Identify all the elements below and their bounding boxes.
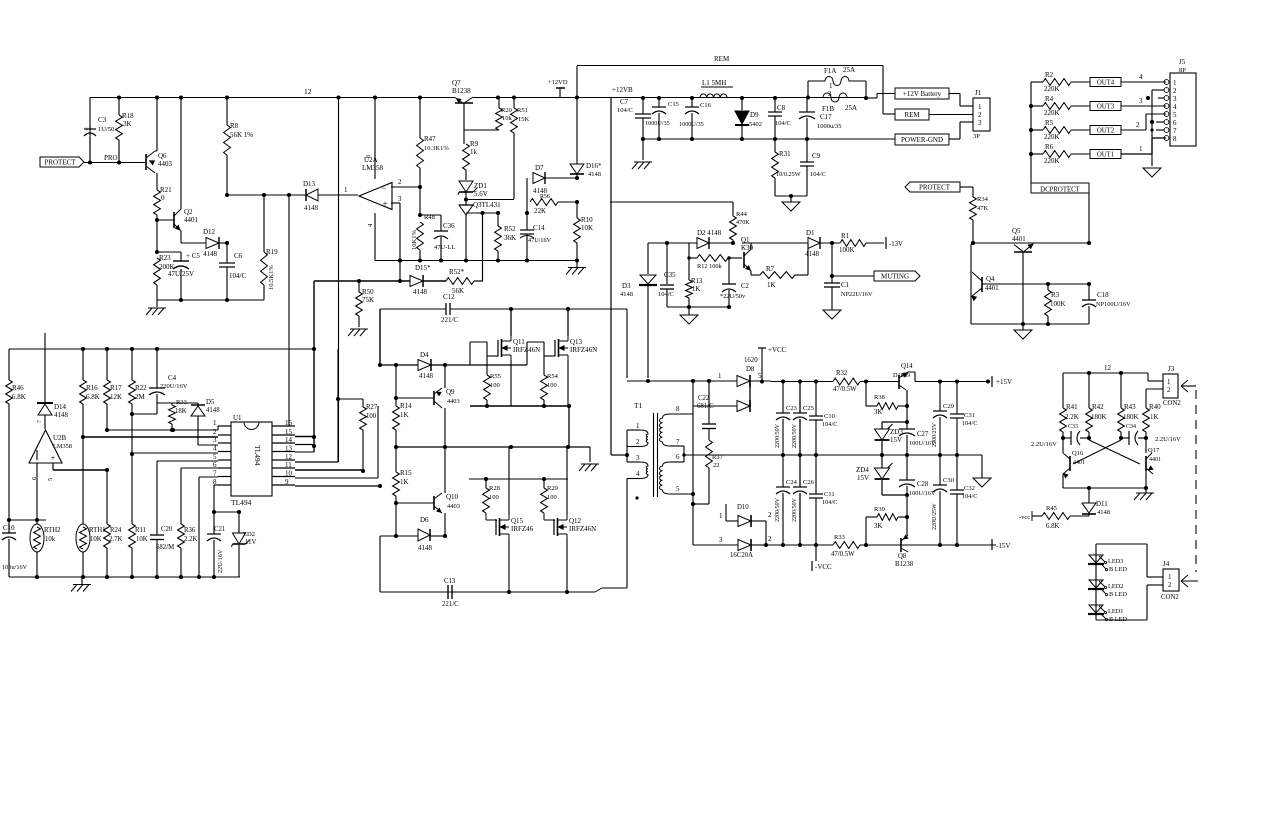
svg-text:R14: R14 bbox=[400, 402, 412, 410]
wire bbox=[1145, 389, 1147, 408]
svg-text:+12VB: +12VB bbox=[612, 86, 633, 94]
svg-text:221/C: 221/C bbox=[442, 601, 459, 608]
wire bbox=[750, 243, 752, 249]
wire bbox=[118, 140, 120, 162]
wire bbox=[1158, 97, 1164, 99]
svg-text:R19: R19 bbox=[266, 248, 278, 256]
junction bbox=[394, 445, 398, 449]
svg-text:104/C: 104/C bbox=[775, 120, 791, 127]
wire bbox=[214, 484, 218, 486]
svg-text:3K: 3K bbox=[874, 409, 882, 416]
svg-text:1000U/35: 1000U/35 bbox=[679, 121, 704, 128]
wire bbox=[815, 545, 817, 561]
wire bbox=[53, 469, 107, 471]
junction bbox=[575, 200, 579, 204]
svg-text:R8: R8 bbox=[230, 122, 239, 130]
wire bbox=[131, 414, 133, 454]
wire bbox=[882, 66, 884, 115]
svg-text:100: 100 bbox=[366, 413, 377, 420]
junction bbox=[155, 250, 159, 254]
svg-text:LM358: LM358 bbox=[362, 164, 384, 172]
svg-text:2.2U/16V: 2.2U/16V bbox=[1155, 436, 1181, 443]
svg-text:5.6V: 5.6V bbox=[474, 190, 488, 198]
svg-text:3: 3 bbox=[636, 454, 640, 462]
wire bbox=[295, 469, 363, 471]
wire bbox=[1145, 488, 1147, 493]
svg-text:104/C: 104/C bbox=[810, 171, 826, 178]
svg-text:4148: 4148 bbox=[620, 291, 633, 298]
wire bbox=[774, 98, 776, 112]
wire bbox=[626, 309, 628, 378]
dashed line bbox=[1195, 390, 1197, 572]
wire bbox=[156, 215, 158, 220]
diode D15 bbox=[410, 276, 423, 287]
wire bbox=[881, 422, 883, 429]
wire bbox=[799, 455, 801, 487]
wire bbox=[157, 460, 218, 462]
wire bbox=[906, 517, 908, 535]
wire bbox=[156, 285, 158, 300]
svg-text:NP100U/16V: NP100U/16V bbox=[1096, 301, 1131, 308]
svg-text:22U/16V: 22U/16V bbox=[217, 549, 224, 573]
svg-text:104/C: 104/C bbox=[822, 421, 837, 428]
wire bbox=[543, 400, 545, 406]
junction bbox=[781, 453, 785, 457]
wire bbox=[589, 447, 591, 462]
svg-text:2: 2 bbox=[768, 511, 772, 519]
svg-text:22K: 22K bbox=[534, 207, 546, 215]
wire bbox=[395, 503, 397, 536]
transistor Q1 bbox=[743, 252, 745, 268]
wire bbox=[1145, 432, 1147, 438]
svg-text:+VCC: +VCC bbox=[768, 346, 787, 354]
junction bbox=[225, 241, 229, 245]
svg-text:Q14: Q14 bbox=[901, 363, 913, 370]
svg-text:1: 1 bbox=[1173, 79, 1177, 87]
wire bbox=[391, 202, 400, 204]
wire bbox=[815, 455, 817, 494]
wire bbox=[132, 413, 157, 415]
svg-text:R17: R17 bbox=[110, 384, 122, 392]
wire bbox=[106, 349, 108, 380]
wire bbox=[898, 516, 907, 518]
junction bbox=[955, 379, 959, 383]
wire bbox=[272, 459, 295, 461]
svg-text:4403: 4403 bbox=[447, 503, 460, 510]
wire bbox=[626, 479, 628, 589]
wire bbox=[156, 173, 158, 190]
wire bbox=[238, 545, 240, 577]
wire bbox=[82, 437, 84, 524]
svg-text:C22: C22 bbox=[698, 395, 710, 402]
wire bbox=[8, 539, 10, 577]
svg-text:8P: 8P bbox=[1179, 67, 1186, 74]
svg-text:5: 5 bbox=[758, 372, 762, 380]
svg-text:220K: 220K bbox=[1044, 109, 1060, 117]
svg-text:4148: 4148 bbox=[419, 372, 434, 380]
svg-text:5402: 5402 bbox=[749, 121, 762, 128]
resistor R21 bbox=[154, 190, 161, 215]
svg-text:ZD4: ZD4 bbox=[856, 466, 869, 474]
svg-text:R36: R36 bbox=[184, 527, 196, 534]
junction bbox=[212, 510, 216, 514]
wire bbox=[445, 364, 527, 366]
svg-text:56K 1%: 56K 1% bbox=[230, 131, 253, 139]
wire bbox=[626, 447, 628, 463]
svg-text:C17: C17 bbox=[820, 113, 832, 121]
svg-text:10K: 10K bbox=[581, 224, 593, 232]
junction bbox=[105, 575, 109, 579]
junction bbox=[496, 258, 500, 262]
svg-text:8: 8 bbox=[676, 405, 680, 413]
transistor Q14 bbox=[860, 381, 899, 383]
wire bbox=[1080, 437, 1089, 439]
wire bbox=[742, 242, 808, 244]
svg-text:7: 7 bbox=[1173, 127, 1177, 135]
wire bbox=[272, 484, 295, 486]
svg-text:Q11: Q11 bbox=[513, 338, 525, 346]
junction bbox=[35, 518, 39, 522]
wire bbox=[688, 258, 690, 280]
wire bbox=[611, 454, 627, 456]
svg-text:470K: 470K bbox=[736, 219, 750, 226]
transistor Q9 bbox=[433, 391, 435, 405]
junction bbox=[740, 137, 744, 141]
svg-text:4148: 4148 bbox=[54, 411, 69, 419]
svg-text:1000u/35: 1000u/35 bbox=[817, 123, 842, 130]
wire bbox=[883, 113, 895, 115]
svg-text:D13: D13 bbox=[303, 180, 316, 188]
svg-text:R16: R16 bbox=[86, 384, 98, 392]
wire bbox=[1120, 373, 1122, 408]
junction bbox=[1144, 486, 1148, 490]
wire bbox=[379, 536, 381, 592]
wire bbox=[882, 494, 907, 496]
svg-text:C9: C9 bbox=[812, 152, 821, 160]
wire bbox=[939, 417, 941, 455]
svg-text:6.8K: 6.8K bbox=[1046, 523, 1059, 530]
svg-text:C34: C34 bbox=[1126, 424, 1136, 430]
svg-text:180K: 180K bbox=[1123, 413, 1139, 421]
wire bbox=[466, 212, 498, 214]
svg-text:6: 6 bbox=[1173, 119, 1177, 127]
wire bbox=[1156, 129, 1164, 131]
junction bbox=[1150, 128, 1153, 131]
junction bbox=[905, 515, 909, 519]
wire bbox=[288, 195, 290, 426]
junction bbox=[575, 176, 579, 180]
svg-text:D10: D10 bbox=[737, 504, 749, 511]
svg-text:4401: 4401 bbox=[1149, 457, 1161, 463]
wire bbox=[464, 129, 466, 131]
wire bbox=[272, 451, 295, 453]
wire bbox=[1030, 82, 1032, 183]
wire bbox=[9, 576, 240, 578]
wire bbox=[602, 587, 627, 589]
svg-text:220U/16V: 220U/16V bbox=[160, 383, 188, 390]
svg-text:47U-LL: 47U-LL bbox=[434, 244, 455, 251]
junction bbox=[88, 160, 92, 164]
pin circle bbox=[1164, 88, 1169, 93]
junction bbox=[394, 396, 398, 400]
svg-text:3: 3 bbox=[978, 119, 982, 127]
wire bbox=[470, 405, 569, 407]
wire bbox=[358, 316, 360, 327]
junction bbox=[880, 453, 884, 457]
svg-text:R34: R34 bbox=[977, 196, 989, 203]
junction bbox=[773, 137, 777, 141]
wire bbox=[181, 242, 206, 244]
junction bbox=[418, 185, 422, 189]
svg-text:REM: REM bbox=[714, 55, 730, 63]
junction bbox=[117, 160, 121, 164]
wire bbox=[510, 309, 512, 336]
led LED2 bbox=[1089, 580, 1103, 588]
wire bbox=[799, 493, 801, 545]
svg-text:2: 2 bbox=[1167, 386, 1171, 394]
wire bbox=[939, 455, 941, 485]
svg-text:104/C: 104/C bbox=[962, 420, 977, 427]
wire bbox=[795, 274, 808, 276]
svg-text:C16: C16 bbox=[700, 102, 712, 109]
wire bbox=[444, 447, 446, 493]
junction bbox=[509, 307, 513, 311]
mosfet Q12 bbox=[553, 519, 555, 535]
junction bbox=[1087, 241, 1091, 245]
junction bbox=[687, 305, 691, 309]
wire bbox=[526, 234, 528, 261]
wire bbox=[156, 220, 158, 252]
wire bbox=[180, 231, 182, 243]
wire bbox=[486, 400, 488, 406]
wire bbox=[626, 430, 628, 447]
svg-text:C3: C3 bbox=[98, 116, 107, 124]
svg-text:R2: R2 bbox=[1045, 71, 1054, 79]
svg-text:7: 7 bbox=[37, 420, 43, 423]
junction bbox=[938, 379, 942, 383]
IC U1 TL494 bbox=[231, 422, 272, 496]
wire bbox=[1063, 437, 1071, 439]
wire bbox=[84, 162, 146, 164]
wire bbox=[226, 98, 228, 126]
junction bbox=[805, 137, 809, 141]
wire bbox=[906, 390, 908, 406]
wire bbox=[52, 463, 54, 470]
svg-text:3: 3 bbox=[398, 195, 402, 203]
junction bbox=[830, 274, 834, 278]
wire bbox=[420, 214, 441, 216]
junction bbox=[864, 543, 868, 547]
wire bbox=[973, 242, 1089, 244]
svg-text:8: 8 bbox=[1173, 135, 1177, 143]
wire bbox=[218, 459, 231, 461]
svg-text:1: 1 bbox=[1168, 573, 1172, 581]
junction bbox=[955, 543, 959, 547]
wire bbox=[761, 348, 763, 352]
zener ZD1 bbox=[459, 181, 473, 192]
junction bbox=[691, 492, 695, 496]
wire bbox=[380, 364, 418, 366]
wire bbox=[526, 178, 528, 213]
wire bbox=[1022, 324, 1024, 330]
svg-text:*22U/50v: *22U/50v bbox=[720, 293, 746, 300]
ground bbox=[350, 328, 368, 330]
transistor Q17 bbox=[1145, 456, 1147, 471]
wire bbox=[226, 267, 228, 300]
junction bbox=[443, 363, 447, 367]
svg-text:R38: R38 bbox=[874, 394, 885, 401]
junction bbox=[657, 96, 661, 100]
junction bbox=[237, 510, 241, 514]
wire bbox=[653, 413, 655, 497]
wire bbox=[959, 94, 961, 107]
wire bbox=[380, 535, 418, 537]
wire bbox=[1147, 373, 1149, 381]
wire bbox=[728, 258, 730, 284]
wire bbox=[1071, 105, 1090, 107]
svg-text:C26: C26 bbox=[803, 479, 815, 486]
svg-text:LM358: LM358 bbox=[53, 443, 72, 450]
junction bbox=[105, 428, 109, 432]
svg-text:R41: R41 bbox=[1066, 403, 1078, 411]
junction bbox=[938, 453, 942, 457]
junction bbox=[439, 258, 443, 262]
svg-text:2.7K: 2.7K bbox=[109, 536, 122, 543]
svg-text:5: 5 bbox=[1173, 111, 1177, 119]
svg-text:1000U/35: 1000U/35 bbox=[645, 120, 670, 127]
junction bbox=[105, 347, 109, 351]
junction bbox=[986, 379, 990, 383]
junction bbox=[171, 428, 175, 432]
wire bbox=[1096, 619, 1147, 621]
svg-text:R55: R55 bbox=[490, 373, 501, 380]
wire bbox=[318, 194, 358, 196]
svg-text:4401: 4401 bbox=[1012, 236, 1026, 243]
svg-text:+: + bbox=[382, 199, 387, 209]
ground bbox=[1143, 168, 1161, 177]
wire bbox=[820, 242, 840, 244]
wire bbox=[806, 98, 808, 112]
wire bbox=[866, 405, 877, 407]
junction bbox=[312, 444, 316, 448]
wire bbox=[473, 97, 866, 99]
wire bbox=[670, 445, 684, 447]
junction bbox=[690, 137, 694, 141]
svg-text:682/M: 682/M bbox=[156, 544, 174, 551]
svg-text:4148: 4148 bbox=[805, 250, 820, 258]
junction bbox=[740, 96, 744, 100]
svg-text:Q2: Q2 bbox=[184, 208, 193, 216]
wire bbox=[295, 477, 378, 479]
wire bbox=[513, 98, 515, 109]
resistor R56 bbox=[530, 199, 558, 206]
wire bbox=[815, 420, 817, 455]
resistor R33b bbox=[833, 542, 860, 549]
svg-text:R7: R7 bbox=[766, 265, 775, 273]
junction bbox=[687, 256, 690, 259]
wire bbox=[217, 426, 219, 430]
wire bbox=[468, 479, 470, 536]
svg-text:RTH1: RTH1 bbox=[89, 527, 106, 534]
junction bbox=[1021, 322, 1025, 326]
svg-text:R54: R54 bbox=[547, 373, 559, 380]
wire bbox=[956, 455, 958, 490]
svg-text:4: 4 bbox=[636, 470, 640, 478]
wire bbox=[171, 403, 173, 405]
junction bbox=[197, 575, 201, 579]
wire bbox=[688, 307, 690, 315]
svg-text:3P: 3P bbox=[973, 133, 980, 140]
led LED1 bbox=[1089, 605, 1103, 613]
svg-text:R31: R31 bbox=[779, 150, 791, 158]
svg-text:1K: 1K bbox=[692, 286, 700, 293]
svg-text:NP22U/16V: NP22U/16V bbox=[841, 291, 873, 298]
svg-text:C33: C33 bbox=[1068, 424, 1078, 430]
junction bbox=[1061, 436, 1065, 440]
svg-text:2200/25V: 2200/25V bbox=[932, 422, 938, 447]
junction bbox=[625, 453, 629, 457]
wire bbox=[1031, 81, 1043, 83]
svg-text:C35: C35 bbox=[664, 271, 676, 279]
svg-text:1: 1 bbox=[978, 103, 982, 111]
wire bbox=[213, 540, 215, 577]
wire bbox=[558, 201, 577, 203]
wire bbox=[464, 129, 499, 131]
junction bbox=[781, 379, 785, 383]
resistor R23 bbox=[154, 258, 161, 285]
junction bbox=[905, 453, 909, 457]
junction bbox=[357, 279, 361, 283]
wire bbox=[906, 495, 908, 517]
wire bbox=[337, 349, 339, 462]
junction bbox=[394, 534, 398, 538]
svg-text:8: 8 bbox=[366, 155, 372, 158]
wire bbox=[440, 237, 442, 261]
wire bbox=[708, 381, 710, 424]
wire bbox=[692, 414, 694, 494]
svg-text:Q17: Q17 bbox=[1148, 447, 1160, 454]
wire bbox=[1152, 474, 1154, 480]
svg-text:1K: 1K bbox=[400, 411, 409, 419]
svg-text:1K: 1K bbox=[400, 478, 409, 486]
junction bbox=[814, 379, 818, 383]
wire bbox=[566, 447, 568, 515]
wire bbox=[782, 493, 784, 545]
wire bbox=[1062, 373, 1064, 408]
wire bbox=[725, 504, 727, 521]
svg-text:100K: 100K bbox=[1050, 300, 1066, 308]
junction bbox=[312, 347, 316, 351]
wire bbox=[431, 364, 445, 366]
junction bbox=[7, 518, 11, 522]
svg-text:11: 11 bbox=[285, 461, 292, 469]
wire bbox=[831, 287, 833, 310]
svg-text:R39: R39 bbox=[874, 506, 885, 513]
svg-text:220K: 220K bbox=[1044, 133, 1060, 141]
wire bbox=[1148, 380, 1163, 382]
wire bbox=[1047, 316, 1049, 324]
wire bbox=[906, 422, 908, 429]
svg-text:2: 2 bbox=[213, 428, 217, 436]
diode D2 bbox=[697, 238, 709, 249]
svg-text:LED1: LED1 bbox=[1108, 608, 1123, 615]
junction bbox=[361, 469, 365, 473]
svg-text:2.2K: 2.2K bbox=[1065, 413, 1079, 421]
wire bbox=[8, 404, 10, 520]
svg-text:104/C: 104/C bbox=[229, 272, 246, 280]
wire bbox=[395, 365, 397, 406]
wire bbox=[627, 380, 737, 382]
